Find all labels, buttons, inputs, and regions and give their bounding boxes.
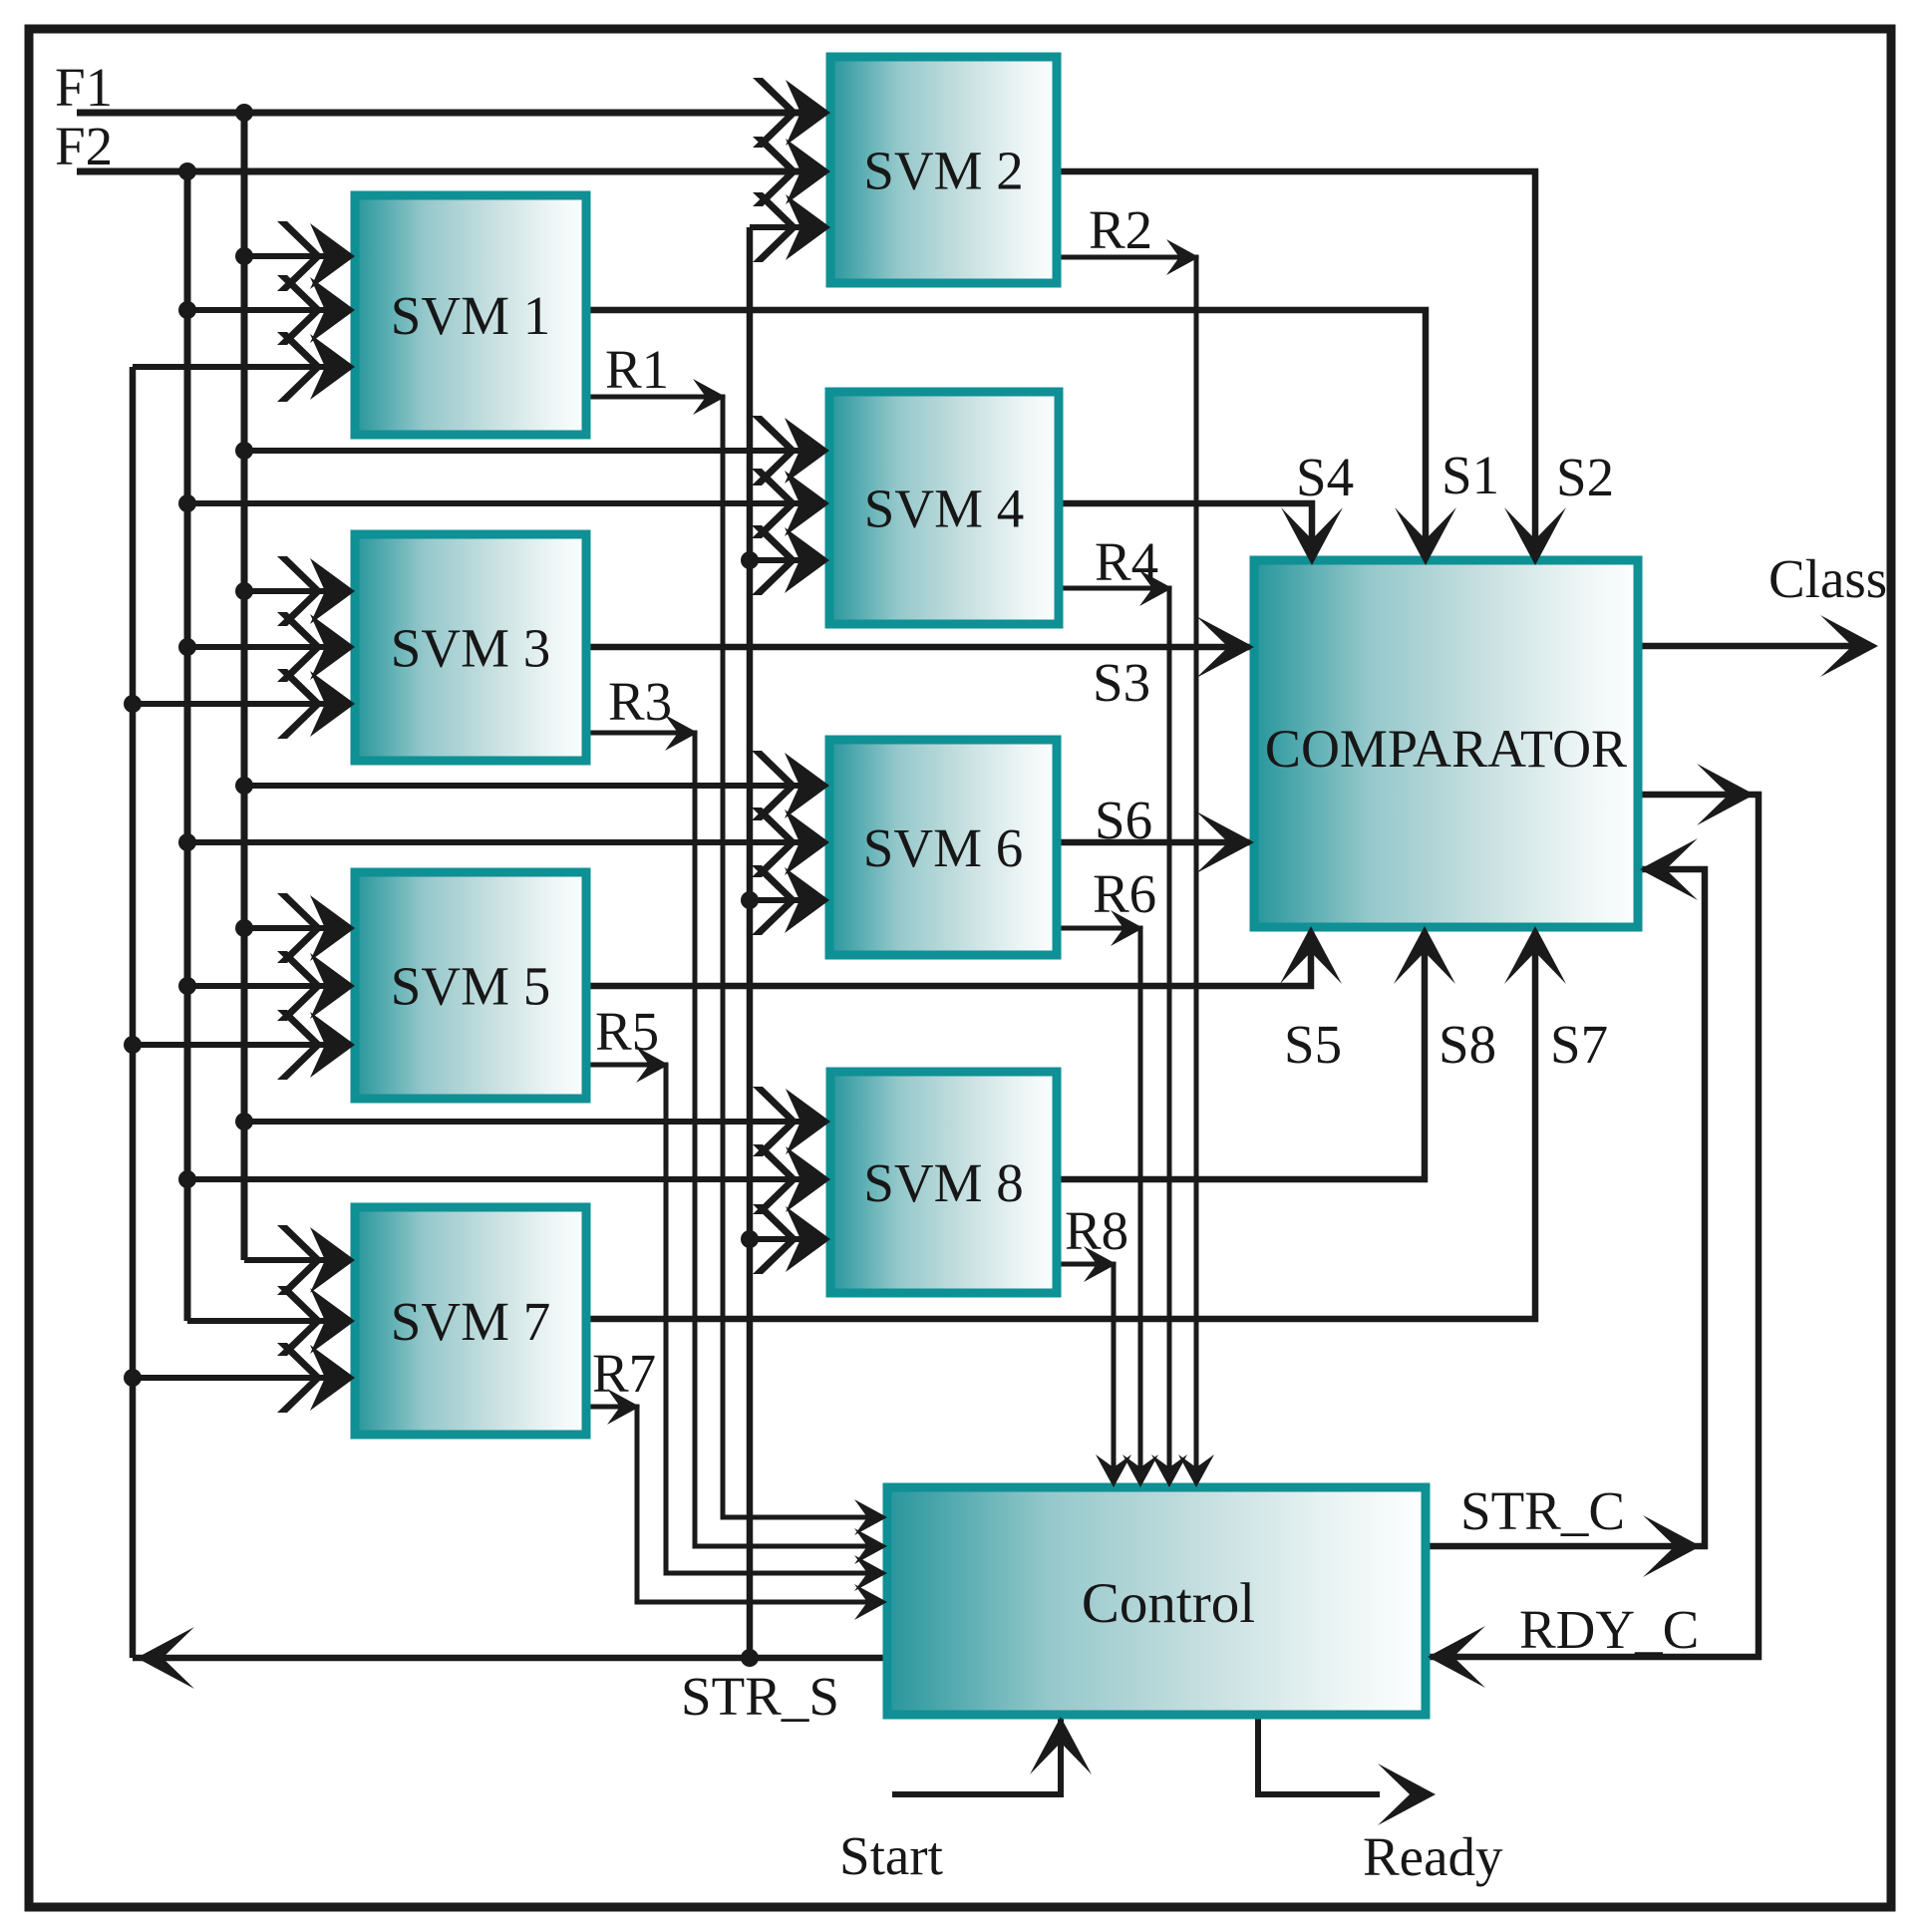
- wire F1 bus elbow to SVM7 in1: [244, 1257, 355, 1263]
- arrow STR_C into COMPARATOR right: [1640, 838, 1698, 900]
- wire S2 net: [1057, 171, 1535, 564]
- junction dot 4 at (188,311): [178, 301, 196, 319]
- wire F1 trunk: [77, 110, 830, 117]
- wire STR_S branch to SVM4 in3: [750, 557, 829, 563]
- arrow S8 into COMPARATOR bottom: [1394, 926, 1455, 984]
- svg-text:R1: R1: [605, 339, 669, 400]
- junction dot 3 at (245,257): [235, 247, 253, 265]
- svg-text:R3: R3: [608, 671, 672, 732]
- arrow into SVM8 input 1: [753, 1087, 830, 1156]
- wire F2 branch to SVM1 in2: [187, 307, 355, 313]
- junction dot 14 at (245,931): [235, 919, 253, 937]
- svg-text:STR_S: STR_S: [681, 1666, 839, 1727]
- arrow into SVM2 input 1: [753, 78, 830, 148]
- wire STR_S right bus vertical: [747, 227, 754, 1658]
- arrow into SVM7 input 2: [277, 1286, 355, 1356]
- arrow S4 into COMPARATOR top: [1281, 507, 1343, 565]
- arrow into SVM3 input 3: [277, 669, 355, 739]
- arrow into SVM6 input 3: [752, 865, 829, 935]
- wire F2 branch to SVM8 in2: [187, 1176, 830, 1182]
- arrow S7 into COMPARATOR bottom: [1504, 926, 1566, 984]
- junction dot 17 at (245,1125): [235, 1113, 253, 1130]
- wire STR_S branch to SVM7 in3: [133, 1375, 355, 1381]
- wire STR_S branch to SVM3 in3: [133, 701, 355, 707]
- svg-text:S1: S1: [1441, 445, 1499, 505]
- block Control: [887, 1487, 1426, 1715]
- arrow R4 elbow: [1139, 570, 1172, 606]
- block SVM4: [829, 392, 1059, 624]
- arrow Ready output: [1378, 1764, 1436, 1825]
- wire F2 bus elbow to SVM7 in2: [187, 1318, 355, 1324]
- wire STR_S right bus elbow to SVM2 in3: [750, 224, 830, 230]
- wire F1 bus vertical: [241, 113, 248, 1260]
- arrow S5 into COMPARATOR bottom: [1280, 926, 1342, 984]
- arrow R1 into Control: [854, 1499, 887, 1535]
- wire RDY_C net: [1426, 795, 1759, 1657]
- wire F2 branch to SVM5 in2: [187, 983, 355, 989]
- svg-text:SVM 6: SVM 6: [863, 817, 1023, 878]
- wire STR_S branch to SVM5 in3: [133, 1042, 355, 1048]
- arrow into SVM1 input 3: [277, 332, 355, 402]
- arrow S2 into COMPARATOR top: [1504, 507, 1566, 565]
- wire F1 branch to SVM4 in1: [244, 448, 829, 454]
- arrow into SVM1 input 1: [277, 221, 355, 291]
- wire R5 net: [586, 1065, 887, 1573]
- wire F2 branch to SVM4 in2: [187, 500, 829, 506]
- svg-text:R8: R8: [1065, 1200, 1128, 1261]
- svg-text:S6: S6: [1095, 790, 1152, 850]
- wire F2 branch to SVM3 in2: [187, 644, 355, 650]
- arrow into SVM8 input 3: [753, 1204, 830, 1274]
- junction dot 11 at (245,788): [235, 777, 253, 795]
- svg-text:Ready: Ready: [1363, 1826, 1503, 1887]
- svg-text:COMPARATOR: COMPARATOR: [1265, 719, 1627, 779]
- wire R8 net: [1057, 1264, 1114, 1487]
- arrow into SVM2 input 2: [753, 137, 830, 206]
- wire S7 net: [586, 927, 1535, 1319]
- svg-text:S5: S5: [1284, 1014, 1342, 1075]
- arrow Class output: [1820, 615, 1878, 677]
- svg-text:R4: R4: [1095, 531, 1158, 592]
- wire Ready net: [1258, 1715, 1380, 1794]
- arrow R8 into Control top: [1096, 1454, 1131, 1487]
- wire S3 net: [586, 644, 1254, 651]
- arrow into SVM5 input 1: [277, 893, 355, 963]
- svg-text:F2: F2: [55, 116, 113, 176]
- wire R4 net: [1057, 588, 1169, 1487]
- arrow STR_S left end: [137, 1627, 194, 1689]
- arrow STR_C elbow: [1643, 1515, 1701, 1577]
- junction dot 9 at (188,649): [178, 638, 196, 656]
- svg-text:R5: R5: [595, 1001, 659, 1062]
- junction dot 10 at (133,706): [124, 695, 142, 713]
- arrow R7 elbow: [607, 1389, 640, 1425]
- block SVM3: [355, 534, 586, 761]
- junction dot 13 at (752,903): [741, 891, 759, 909]
- svg-text:S3: S3: [1093, 652, 1150, 713]
- wire F2 branch to SVM6 in2: [187, 839, 829, 845]
- svg-text:Class: Class: [1768, 548, 1887, 609]
- arrow into SVM5 input 3: [277, 1010, 355, 1080]
- arrow into SVM3 input 1: [277, 556, 355, 626]
- arrow into SVM4 input 1: [752, 416, 829, 485]
- wire F2 trunk: [77, 168, 830, 175]
- wire F1 branch to SVM5 in1: [244, 925, 355, 931]
- junction dot 19 at (752,1243): [741, 1230, 759, 1248]
- junction dot 20 at (133,1382): [124, 1369, 142, 1387]
- wire S6 net: [1057, 839, 1254, 846]
- block COMPARATOR: [1254, 560, 1638, 927]
- wire STR_S trunk: [133, 1655, 887, 1662]
- arrow RDY_C into Control: [1428, 1626, 1485, 1688]
- svg-text:S8: S8: [1439, 1014, 1496, 1075]
- junction dot 18 at (188,1183): [178, 1170, 196, 1188]
- wire R2 net: [1057, 257, 1196, 1487]
- arrow into SVM7 input 1: [277, 1225, 355, 1295]
- arrow R5 elbow: [636, 1047, 669, 1083]
- arrow into SVM8 input 2: [753, 1144, 830, 1214]
- block SVM8: [830, 1072, 1057, 1293]
- arrow into SVM6 input 2: [752, 807, 829, 877]
- arrow S6 into COMPARATOR: [1196, 811, 1254, 873]
- arrow into SVM1 input 2: [277, 275, 355, 345]
- wire STR_C net: [1426, 869, 1705, 1546]
- block SVM1: [355, 195, 586, 435]
- junction dot 8 at (245,593): [235, 582, 253, 600]
- svg-text:SVM 7: SVM 7: [391, 1291, 550, 1352]
- svg-text:S2: S2: [1556, 447, 1614, 507]
- arrow R3 elbow: [665, 715, 698, 751]
- svg-text:SVM 8: SVM 8: [863, 1152, 1023, 1213]
- wire S8 net: [1057, 927, 1425, 1179]
- arrow R8 elbow: [1084, 1246, 1117, 1282]
- svg-text:SVM 4: SVM 4: [864, 479, 1024, 539]
- wire STR_S left bus elbow to SVM1 in3: [133, 364, 355, 370]
- wire S5 net: [586, 927, 1311, 986]
- junction dot 16 at (133,1048): [124, 1036, 142, 1054]
- wire Start net: [892, 1717, 1061, 1794]
- svg-text:S7: S7: [1550, 1014, 1608, 1075]
- wire R6 net: [1057, 928, 1140, 1487]
- wire S1 net: [586, 310, 1426, 564]
- svg-text:SVM 2: SVM 2: [863, 141, 1023, 201]
- block SVM6: [829, 740, 1057, 955]
- junction dot 12 at (188,845): [178, 833, 196, 851]
- svg-text:S4: S4: [1296, 447, 1354, 507]
- arrow into SVM3 input 2: [277, 612, 355, 682]
- wire F1 branch to SVM3 in1: [244, 588, 355, 594]
- block SVM5: [355, 872, 586, 1099]
- junction dot 1 at (245,113): [235, 104, 253, 122]
- wire STR_S left bus vertical: [130, 367, 137, 1658]
- wire R7 net: [586, 1407, 887, 1602]
- svg-text:F1: F1: [55, 57, 113, 118]
- junction dot 7 at (752,562): [741, 551, 759, 569]
- arrow RDY_C elbow: [1697, 764, 1755, 825]
- wire STR_S branch to SVM8 in3: [750, 1236, 830, 1242]
- arrow R7 into Control: [854, 1584, 887, 1620]
- arrow R6 elbow: [1111, 910, 1143, 946]
- wire F1 branch to SVM1 in1: [244, 253, 355, 259]
- svg-text:SVM 1: SVM 1: [391, 285, 550, 346]
- arrow R2 elbow: [1166, 239, 1199, 275]
- arrow into SVM6 input 1: [752, 751, 829, 820]
- junction dot 6 at (188,505): [178, 494, 196, 512]
- svg-text:SVM 3: SVM 3: [391, 618, 550, 679]
- wire R1 net: [586, 397, 887, 1517]
- wire F1 branch to SVM8 in1: [244, 1119, 830, 1125]
- arrow S3 into COMPARATOR: [1196, 616, 1254, 678]
- wire S4 net: [1057, 503, 1312, 564]
- svg-text:R6: R6: [1093, 863, 1156, 924]
- arrow R5 into Control: [854, 1555, 887, 1591]
- arrow into SVM4 input 2: [752, 469, 829, 538]
- svg-text:RDY_C: RDY_C: [1519, 1599, 1699, 1660]
- junction dot 15 at (188,989): [178, 977, 196, 995]
- wire Class net: [1638, 643, 1872, 650]
- wire F1 branch to SVM6 in1: [244, 783, 829, 789]
- arrow into SVM2 input 3: [753, 192, 830, 262]
- arrow R1 elbow: [693, 379, 726, 415]
- arrow R6 into Control top: [1122, 1454, 1158, 1487]
- junction dot 2 at (188,172): [178, 162, 196, 180]
- arrow R2 into Control top: [1178, 1454, 1214, 1487]
- arrow R4 into Control top: [1151, 1454, 1187, 1487]
- junction dot 21 at (752,1663): [741, 1649, 759, 1667]
- wire R3 net: [586, 733, 887, 1546]
- svg-text:STR_C: STR_C: [1460, 1480, 1625, 1541]
- svg-text:R2: R2: [1089, 199, 1152, 260]
- arrow Start into Control: [1030, 1717, 1092, 1774]
- block SVM7: [355, 1207, 586, 1435]
- wire STR_S branch to SVM6 in3: [750, 897, 829, 903]
- arrow S1 into COMPARATOR top: [1395, 507, 1456, 565]
- svg-text:Start: Start: [839, 1825, 943, 1886]
- arrow R3 into Control: [854, 1528, 887, 1564]
- svg-text:R7: R7: [592, 1343, 656, 1404]
- svg-text:SVM 5: SVM 5: [391, 956, 550, 1017]
- arrow into SVM5 input 2: [277, 951, 355, 1021]
- junction dot 5 at (245,452): [235, 442, 253, 460]
- arrow into SVM7 input 3: [277, 1343, 355, 1413]
- wire F2 bus vertical: [184, 171, 191, 1321]
- block SVM2: [830, 57, 1057, 283]
- svg-text:Control: Control: [1082, 1572, 1255, 1635]
- arrow into SVM4 input 3: [752, 525, 829, 595]
